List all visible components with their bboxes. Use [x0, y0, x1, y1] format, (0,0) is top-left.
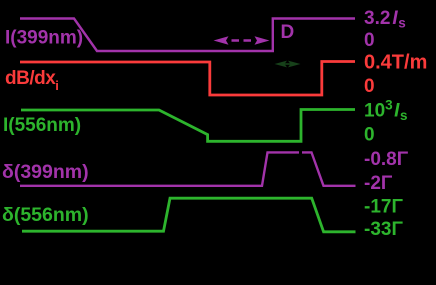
dark green double arrow — [275, 61, 301, 68]
svg-text:-17Γ: -17Γ — [364, 197, 403, 218]
svg-text:δ(556nm): δ(556nm) — [2, 204, 89, 226]
wire delta(556nm) waveform — [22, 198, 356, 232]
svg-text:-0.8Γ: -0.8Γ — [364, 149, 409, 170]
svg-text:0: 0 — [364, 125, 375, 146]
node D dashed double arrow — [214, 36, 270, 44]
svg-text:0: 0 — [364, 76, 375, 97]
svg-text:0: 0 — [364, 30, 375, 51]
svg-text:-33Γ: -33Γ — [364, 219, 403, 240]
svg-text:-2Γ: -2Γ — [364, 173, 393, 194]
svg-text:I(399nm): I(399nm) — [5, 28, 83, 49]
wire I(556nm) waveform — [21, 110, 355, 142]
svg-text:D: D — [281, 22, 295, 43]
svg-text:I(556nm): I(556nm) — [3, 115, 81, 136]
svg-text:δ(399nm): δ(399nm) — [2, 161, 89, 183]
wire I(399nm) waveform — [20, 19, 355, 52]
wire dB/dx waveform — [20, 62, 355, 96]
svg-text:0.4T/m: 0.4T/m — [364, 52, 427, 74]
wire delta(399nm) waveform — [20, 152, 299, 185]
